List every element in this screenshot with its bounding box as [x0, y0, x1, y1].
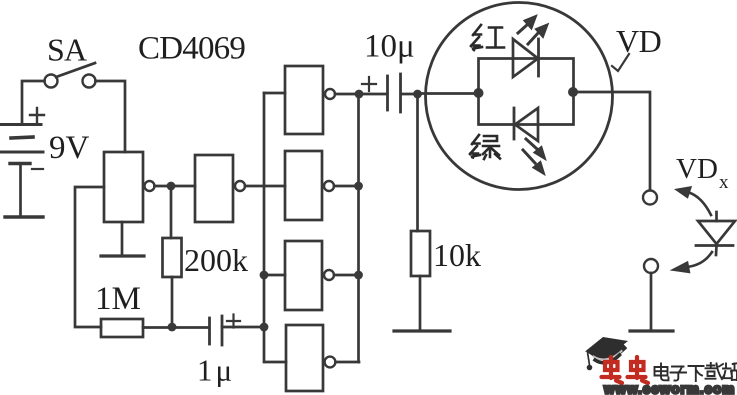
wire node H to LED pair [418, 92, 474, 95]
wire battery+ to switch [22, 81, 45, 123]
arrow VDx to T1 [676, 187, 711, 215]
label 200k [184, 242, 248, 278]
wire R3 to ground [419, 276, 422, 330]
input bus (left vertical) [264, 93, 286, 362]
svg-text:10k: 10k [433, 237, 481, 273]
watermark text chongchong (red worms) [602, 357, 649, 383]
wire U1e out to bus [334, 274, 359, 277]
node E junction (bus top / C2) [355, 90, 364, 99]
wire LED loop [479, 59, 574, 125]
wire U1a out to U1b in [155, 185, 196, 188]
arrow VDx to T2 [672, 252, 712, 273]
wire switch to U1 power [96, 81, 126, 152]
node I junction (LED left) [474, 88, 484, 98]
svg-text:1M: 1M [95, 281, 141, 317]
label 10u [364, 29, 415, 65]
label SA [47, 32, 87, 68]
wire node A down to R1 [170, 186, 173, 238]
wire node B to C1 [143, 326, 209, 329]
LED assembly circle VD [426, 3, 613, 190]
label 9V [49, 130, 90, 166]
diode VDx (device under test) [696, 212, 735, 255]
inverter U1b [195, 155, 245, 222]
inverter U1a [104, 152, 155, 222]
label VDx [676, 153, 729, 193]
svg-text:200k: 200k [184, 242, 248, 278]
svg-text:VD: VD [676, 153, 718, 185]
LED VD1 emission arrows [518, 16, 548, 45]
terminal T2 [644, 259, 658, 273]
node J junction (LED right) [568, 87, 578, 97]
ground (R3) [394, 329, 450, 332]
wire battery- to ground [19, 164, 22, 217]
LED VD2 emission arrows [523, 139, 546, 175]
resistor R2 1M [101, 319, 143, 337]
node D junction (bus / C1) [260, 323, 269, 332]
leader line VD [612, 54, 629, 71]
resistor R3 10k [411, 231, 430, 276]
node H junction (C2 / R3 / LED) [413, 90, 422, 99]
wire LED right to terminal 1 [578, 92, 650, 190]
capacitor C2 10u [362, 74, 417, 112]
inverter U1c [285, 66, 335, 134]
label red (hanzi hong) [471, 25, 504, 50]
switch SA [45, 63, 96, 88]
svg-text:9V: 9V [49, 130, 90, 166]
resistor R1 200k [163, 238, 182, 277]
label 1M [95, 281, 141, 317]
node C junction (bus / U1e input) [260, 271, 269, 280]
watermark text www.eeworm.com [603, 382, 735, 395]
node B junction [168, 323, 177, 332]
label 1u [197, 353, 235, 388]
LED VD2 green [514, 108, 538, 141]
battery GB 9V [0, 108, 44, 169]
watermark logo graduation cap [585, 337, 628, 370]
wire bus to U1e input [264, 274, 285, 277]
wire terminal 2 to ground [650, 273, 653, 330]
wire U1c out to node E [335, 93, 359, 96]
svg-text:x: x [719, 172, 729, 193]
inverter U1e [285, 241, 334, 310]
label CD4069 [138, 31, 245, 67]
inverter U1f [286, 325, 335, 391]
wire C1 to input bus [222, 326, 264, 329]
capacitor C1 1u [210, 315, 241, 346]
svg-text:10μ: 10μ [364, 29, 415, 65]
wire R1 to node B [171, 277, 174, 327]
node G junction (bus / U1e out) [354, 271, 363, 280]
svg-text:www.eeworm.com: www.eeworm.com [603, 382, 735, 395]
label 10k [433, 237, 481, 273]
wire U1d out to bus [334, 185, 359, 188]
node F junction (bus / U1d out) [354, 182, 363, 191]
wire U1a input feedback [75, 187, 104, 327]
svg-text:SA: SA [47, 32, 87, 68]
inverter U1d [285, 151, 334, 220]
node A junction [167, 182, 176, 191]
wire bus to U1c input [264, 92, 285, 95]
label VD [616, 23, 661, 59]
wire U1a bottom to ground [121, 222, 124, 255]
watermark text dianzixiazaizhan [655, 363, 737, 381]
svg-text:CD4069: CD4069 [138, 31, 245, 67]
terminal T1 [643, 191, 657, 205]
ground (battery) [5, 215, 43, 218]
wire U1b out to input bus [245, 185, 285, 188]
ground (T2) [630, 329, 673, 332]
wire node H down to R3 [416, 94, 419, 231]
svg-text:VD: VD [616, 23, 661, 59]
svg-text:1μ: 1μ [197, 353, 235, 388]
output bus (right vertical) [357, 94, 360, 362]
wire U1f out to bus [336, 361, 360, 364]
label green (hanzi lu) [470, 135, 500, 159]
LED VD1 red [513, 39, 539, 77]
ground (U1a) [101, 254, 144, 257]
